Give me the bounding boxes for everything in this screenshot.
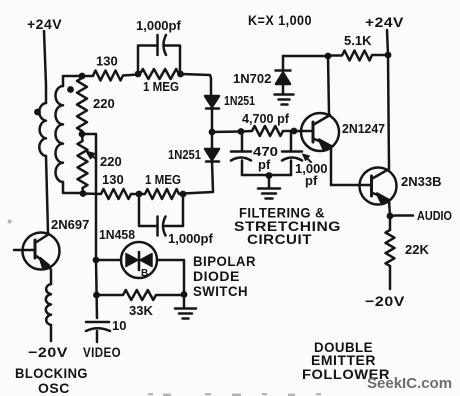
wire secondary bottom [63, 182, 83, 193]
resistor R3 130 bottom [83, 189, 139, 199]
resistor R2 1 MEG top [140, 69, 181, 79]
arrow to C4 [305, 157, 311, 163]
wire cap bottoms [242, 174, 291, 177]
resistor R10 22K [386, 216, 395, 289]
transformer T1 primary winding [39, 103, 46, 156]
wire x96 down to 33K and C5 [96, 260, 97, 318]
wire collector Q2 riser [328, 56, 329, 114]
capacitor C2 1,000pf bottom loop [139, 194, 183, 226]
diode D2 1N251 bottom [211, 132, 214, 149]
wire L1 to -20V [50, 325, 53, 341]
inductor L1 emitter coil [46, 284, 51, 325]
svg-text:VIDEO: VIDEO [83, 344, 121, 360]
resistor R7 33K [97, 290, 184, 300]
svg-text:220: 220 [93, 96, 115, 111]
capacitor C5 10 [86, 322, 110, 342]
svg-text:BLOCKING: BLOCKING [15, 365, 88, 381]
svg-text:DIODE: DIODE [193, 268, 240, 284]
zener diode D3 1N702 [276, 56, 291, 71]
resistor R4 1 MEG bottom [139, 189, 183, 199]
svg-text:SeekIC.com: SeekIC.com [367, 375, 452, 392]
capacitor C3 470 pf [231, 132, 251, 176]
capacitor C1 1,000pf top loop [138, 46, 180, 75]
capacitor C1 plates [158, 35, 167, 55]
wire secondary top to node A [63, 76, 93, 86]
polarity dot secondary [67, 86, 74, 93]
svg-text:+24V: +24V [365, 14, 404, 30]
wire +24V left lead [44, 31, 46, 103]
resistor R5 220 upper [77, 76, 87, 134]
svg-text:−20V: −20V [28, 344, 68, 360]
wire audio tap [390, 214, 413, 217]
ground G2 filter [258, 175, 280, 199]
svg-text:SWITCH: SWITCH [193, 283, 248, 299]
wire node B to diode D1 [181, 74, 211, 96]
svg-text:B: B [141, 268, 148, 279]
svg-text:1,000pf: 1,000pf [136, 18, 181, 33]
svg-text:10: 10 [112, 318, 126, 333]
svg-text:220: 220 [100, 154, 122, 169]
svg-text:33K: 33K [129, 303, 153, 318]
ground G3 zener [275, 95, 294, 105]
svg-text:AUDIO: AUDIO [417, 208, 452, 223]
svg-text:4,700 pf: 4,700 pf [242, 111, 290, 126]
scan artifact caption remnants [8, 220, 322, 396]
svg-text:2N1247: 2N1247 [342, 121, 385, 136]
svg-text:BIPOLAR: BIPOLAR [193, 253, 256, 269]
svg-text:CIRCUIT: CIRCUIT [247, 231, 312, 247]
wire tap from R6 junction [82, 134, 96, 260]
svg-text:1N251: 1N251 [224, 93, 255, 108]
svg-text:1,000pf: 1,000pf [168, 231, 213, 246]
wire node D to 4700 [212, 130, 241, 133]
resistor R9 5.1K [328, 51, 388, 61]
wiper arrow R6 [89, 154, 96, 160]
svg-text:pf: pf [305, 173, 318, 188]
svg-text:1 MEG: 1 MEG [145, 172, 181, 187]
svg-text:2N33B: 2N33B [401, 174, 441, 189]
svg-text:K=X 1,000: K=X 1,000 [248, 12, 312, 28]
wire zener to 5.1K row [283, 55, 328, 58]
capacitor C2 plates [158, 217, 166, 236]
svg-text:5.1K: 5.1K [344, 33, 372, 48]
svg-text:22K: 22K [405, 242, 429, 257]
resistor R6 220 lower variable [78, 134, 88, 194]
bipolar diode CR1 1N458 circle [121, 242, 157, 278]
resistor R8 4,700 pf [241, 126, 294, 136]
transistor Q2 2N1247 [301, 113, 339, 151]
transistor Q1 2N697 [23, 233, 60, 270]
diode D1 1N251 top [205, 96, 219, 107]
wire primary bottom to 2N697 collector [46, 156, 48, 233]
svg-text:1N251: 1N251 [168, 147, 201, 162]
svg-text:130: 130 [102, 172, 124, 187]
svg-text:130: 130 [96, 54, 118, 69]
wire Q2 emitter to Q3 base [331, 184, 371, 187]
resistor R1 130 top [93, 71, 138, 81]
svg-text:1N458: 1N458 [99, 227, 135, 242]
polarity dot primary [34, 109, 41, 116]
svg-text:+24V: +24V [27, 16, 62, 32]
CR1 internal diodes [138, 252, 141, 270]
transformer T1 secondary winding [55, 86, 63, 182]
wire CR1 right side down [157, 260, 184, 294]
junction dots [79, 73, 86, 80]
svg-text:1N702: 1N702 [233, 71, 271, 86]
svg-text:1 MEG: 1 MEG [143, 79, 179, 94]
wire +24V right rail [387, 30, 389, 168]
capacitor C4 1,000 pf [282, 131, 302, 175]
svg-text:2N697: 2N697 [51, 217, 89, 232]
ground G1 below 33K [175, 295, 196, 319]
transistor Q3 2N33B [360, 168, 397, 205]
svg-text:pf: pf [258, 157, 271, 172]
svg-text:OSC: OSC [38, 380, 70, 396]
svg-text:−20V: −20V [365, 293, 405, 309]
wire node to CR1 [96, 259, 121, 262]
